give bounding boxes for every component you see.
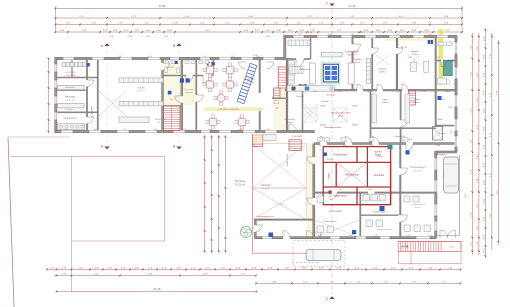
- svg-text:Trockenlager 2: Trockenlager 2: [410, 166, 427, 169]
- svg-text:1,00: 1,00: [118, 56, 122, 58]
- svg-text:Fensterrahmen par: Fensterrahmen par: [256, 215, 273, 218]
- svg-text:1,00: 1,00: [436, 57, 440, 59]
- svg-text:75,3 m²: 75,3 m²: [338, 115, 345, 118]
- svg-text:1,00: 1,00: [313, 91, 317, 93]
- svg-text:1,00: 1,00: [328, 34, 332, 36]
- svg-text:1,00: 1,00: [266, 129, 270, 131]
- svg-text:1,00: 1,00: [338, 91, 342, 93]
- svg-text:1,00: 1,00: [64, 129, 68, 131]
- svg-text:Kältelager: Kältelager: [261, 184, 272, 187]
- svg-text:Angieraume: Angieraume: [333, 195, 347, 198]
- svg-text:0,96: 0,96: [146, 36, 150, 38]
- svg-text:95,06 m²: 95,06 m²: [137, 90, 146, 93]
- svg-text:4,97 m²: 4,97 m²: [327, 158, 333, 161]
- svg-text:1,135: 1,135: [408, 139, 413, 141]
- svg-text:43,95: 43,95: [159, 4, 166, 8]
- svg-text:53,36 m²: 53,36 m²: [235, 182, 245, 186]
- svg-text:Garderobe: Garderobe: [65, 86, 76, 89]
- svg-text:1,00: 1,00: [366, 91, 370, 93]
- svg-text:W 172: W 172: [401, 47, 408, 49]
- svg-text:1,00: 1,00: [338, 189, 342, 191]
- svg-text:Essbereich: Essbereich: [300, 68, 312, 71]
- svg-text:14,89 m²: 14,89 m²: [381, 101, 388, 104]
- svg-text:1,00: 1,00: [318, 235, 322, 237]
- svg-text:Podest: Podest: [352, 105, 358, 108]
- svg-text:W 172: W 172: [357, 32, 364, 34]
- svg-text:Vorraum: Vorraum: [166, 66, 175, 69]
- svg-text:0,96: 0,96: [128, 36, 132, 38]
- svg-text:Bad 2: Bad 2: [439, 99, 445, 101]
- svg-text:2,20 OKFF: 2,20 OKFF: [292, 136, 303, 138]
- svg-text:21,30: 21,30: [349, 4, 356, 8]
- svg-text:1,00: 1,00: [406, 235, 410, 237]
- svg-text:0,96: 0,96: [164, 36, 168, 38]
- svg-text:Vorraum: Vorraum: [321, 101, 329, 103]
- svg-text:wäsche: wäsche: [185, 92, 193, 94]
- svg-text:2,38 m²: 2,38 m²: [445, 90, 451, 93]
- svg-text:1,00: 1,00: [370, 145, 374, 147]
- svg-text:Aufenthaltsfläche Flur: Aufenthaltsfläche Flur: [331, 112, 351, 115]
- svg-text:1,00: 1,00: [396, 34, 400, 36]
- svg-text:26,52 m²: 26,52 m²: [414, 206, 422, 209]
- svg-text:0,96: 0,96: [266, 36, 270, 38]
- svg-text:Fensterrahmen: Fensterrahmen: [324, 220, 337, 223]
- svg-text:1,00: 1,00: [318, 145, 322, 147]
- svg-text:Wohnbereichsflur: Wohnbereichsflur: [325, 126, 342, 129]
- svg-text:7,91 m²: 7,91 m²: [157, 121, 164, 124]
- svg-text:Tiefkühlraum: Tiefkühlraum: [345, 174, 359, 177]
- svg-text:1,00: 1,00: [348, 235, 352, 237]
- svg-text:37,56 m²: 37,56 m²: [276, 203, 284, 206]
- svg-text:Anlieferung: Anlieferung: [286, 153, 289, 165]
- svg-text:Dusche: Dusche: [297, 96, 305, 98]
- svg-text:Küche: Küche: [137, 86, 145, 89]
- svg-text:1,00: 1,00: [208, 129, 212, 131]
- svg-text:Treppenhaus: Treppenhaus: [250, 72, 253, 83]
- svg-text:Wintergarten: Wintergarten: [329, 210, 343, 213]
- svg-text:48,21 m²: 48,21 m²: [66, 99, 75, 102]
- svg-text:5,62 m²: 5,62 m²: [377, 155, 383, 158]
- svg-text:+0,50 OKRF: +0,50 OKRF: [64, 75, 76, 77]
- svg-text:1,00: 1,00: [123, 129, 127, 131]
- svg-text:+1,00 OKFF: +1,00 OKFF: [92, 105, 94, 118]
- svg-text:Kombüse: Kombüse: [374, 174, 385, 177]
- svg-text:Dusche/WC: Dusche/WC: [285, 119, 296, 121]
- svg-text:Spülküche: Spülküche: [155, 119, 166, 121]
- svg-text:Vergrößerung: Vergrößerung: [259, 219, 271, 221]
- svg-text:Lager: Lager: [328, 173, 331, 179]
- svg-text:1,00: 1,00: [422, 91, 426, 93]
- svg-text:14,88 m²: 14,88 m²: [379, 71, 386, 74]
- svg-text:1,00: 1,00: [203, 56, 207, 58]
- svg-text:Transport-: Transport-: [184, 88, 194, 91]
- svg-text:28,74 m²: 28,74 m²: [414, 170, 423, 173]
- svg-text:20,70 m²: 20,70 m²: [411, 53, 418, 56]
- svg-text:Schlafzim.: Schlafzim.: [352, 59, 362, 61]
- svg-text:Trockenlager 1: Trockenlager 1: [372, 211, 388, 214]
- svg-text:Lager: Lager: [382, 99, 387, 101]
- svg-text:Kinderwagen: Kinderwagen: [434, 154, 446, 156]
- svg-text:Gästezim.: Gästezim.: [378, 68, 387, 71]
- svg-text:Aufzug: Aufzug: [439, 132, 445, 135]
- svg-text:1,00: 1,00: [408, 57, 412, 59]
- svg-text:1,00: 1,00: [396, 91, 400, 93]
- svg-text:15,87 m²: 15,87 m²: [353, 61, 360, 64]
- svg-text:Carport: Carport: [442, 171, 445, 178]
- svg-text:1,00: 1,00: [448, 107, 452, 109]
- svg-text:Waschmaschinenr.: Waschmaschinenr.: [377, 228, 393, 231]
- svg-text:Podest: Podest: [320, 105, 326, 108]
- svg-text:Kochbereich: Kochbereich: [345, 51, 359, 54]
- svg-text:5,00: 5,00: [465, 194, 467, 198]
- svg-text:2,01: 2,01: [451, 130, 453, 134]
- svg-text:1,00: 1,00: [148, 56, 152, 58]
- svg-text:0,885: 0,885: [436, 145, 441, 147]
- svg-text:1,00: 1,00: [93, 129, 97, 131]
- svg-text:Trockenlager li: Trockenlager li: [411, 203, 425, 206]
- svg-text:Trockenraum: Trockenraum: [333, 154, 348, 157]
- svg-text:1,00: 1,00: [238, 129, 242, 131]
- svg-text:Spielzim.: Spielzim.: [411, 51, 420, 53]
- svg-text:+3,50 OKFF: +3,50 OKFF: [65, 72, 77, 74]
- svg-text:1,00: 1,00: [374, 235, 378, 237]
- svg-text:1,00: 1,00: [230, 56, 234, 58]
- svg-text:90,92 m²: 90,92 m²: [348, 54, 357, 57]
- svg-text:1,00: 1,00: [428, 235, 432, 237]
- svg-text:Flur: Flur: [170, 99, 174, 101]
- svg-text:Terrasse: Terrasse: [235, 179, 246, 183]
- svg-text:1,00: 1,00: [343, 145, 347, 147]
- svg-text:1,00: 1,00: [368, 189, 372, 191]
- svg-text:14,61 m²: 14,61 m²: [413, 101, 420, 104]
- svg-text:Werkstatt: Werkstatt: [65, 96, 76, 99]
- svg-text:0,96: 0,96: [110, 36, 114, 38]
- svg-text:37,36 m²: 37,36 m²: [262, 187, 271, 190]
- svg-text:6,35 m²: 6,35 m²: [287, 121, 294, 124]
- svg-text:Vorbereit.: Vorbereit.: [66, 108, 75, 111]
- svg-text:1,00: 1,00: [256, 56, 260, 58]
- svg-text:Kochzeile: Kochzeile: [327, 95, 335, 97]
- svg-text:1,00: 1,00: [153, 129, 157, 131]
- svg-text:1,00: 1,00: [298, 34, 302, 36]
- svg-text:Podest: Podest: [352, 124, 358, 127]
- svg-text:21,45: 21,45: [154, 287, 161, 291]
- svg-text:1,00: 1,00: [350, 34, 354, 36]
- svg-text:Vorbereitung: Vorbereitung: [63, 117, 77, 120]
- svg-text:+2,26 OKFF +0,08 OKRF: +2,26 OKFF +0,08 OKRF: [217, 109, 239, 111]
- svg-text:1,00: 1,00: [428, 34, 432, 36]
- svg-text:1,00: 1,00: [183, 129, 187, 131]
- svg-text:Vorrat: Vorrat: [414, 98, 420, 101]
